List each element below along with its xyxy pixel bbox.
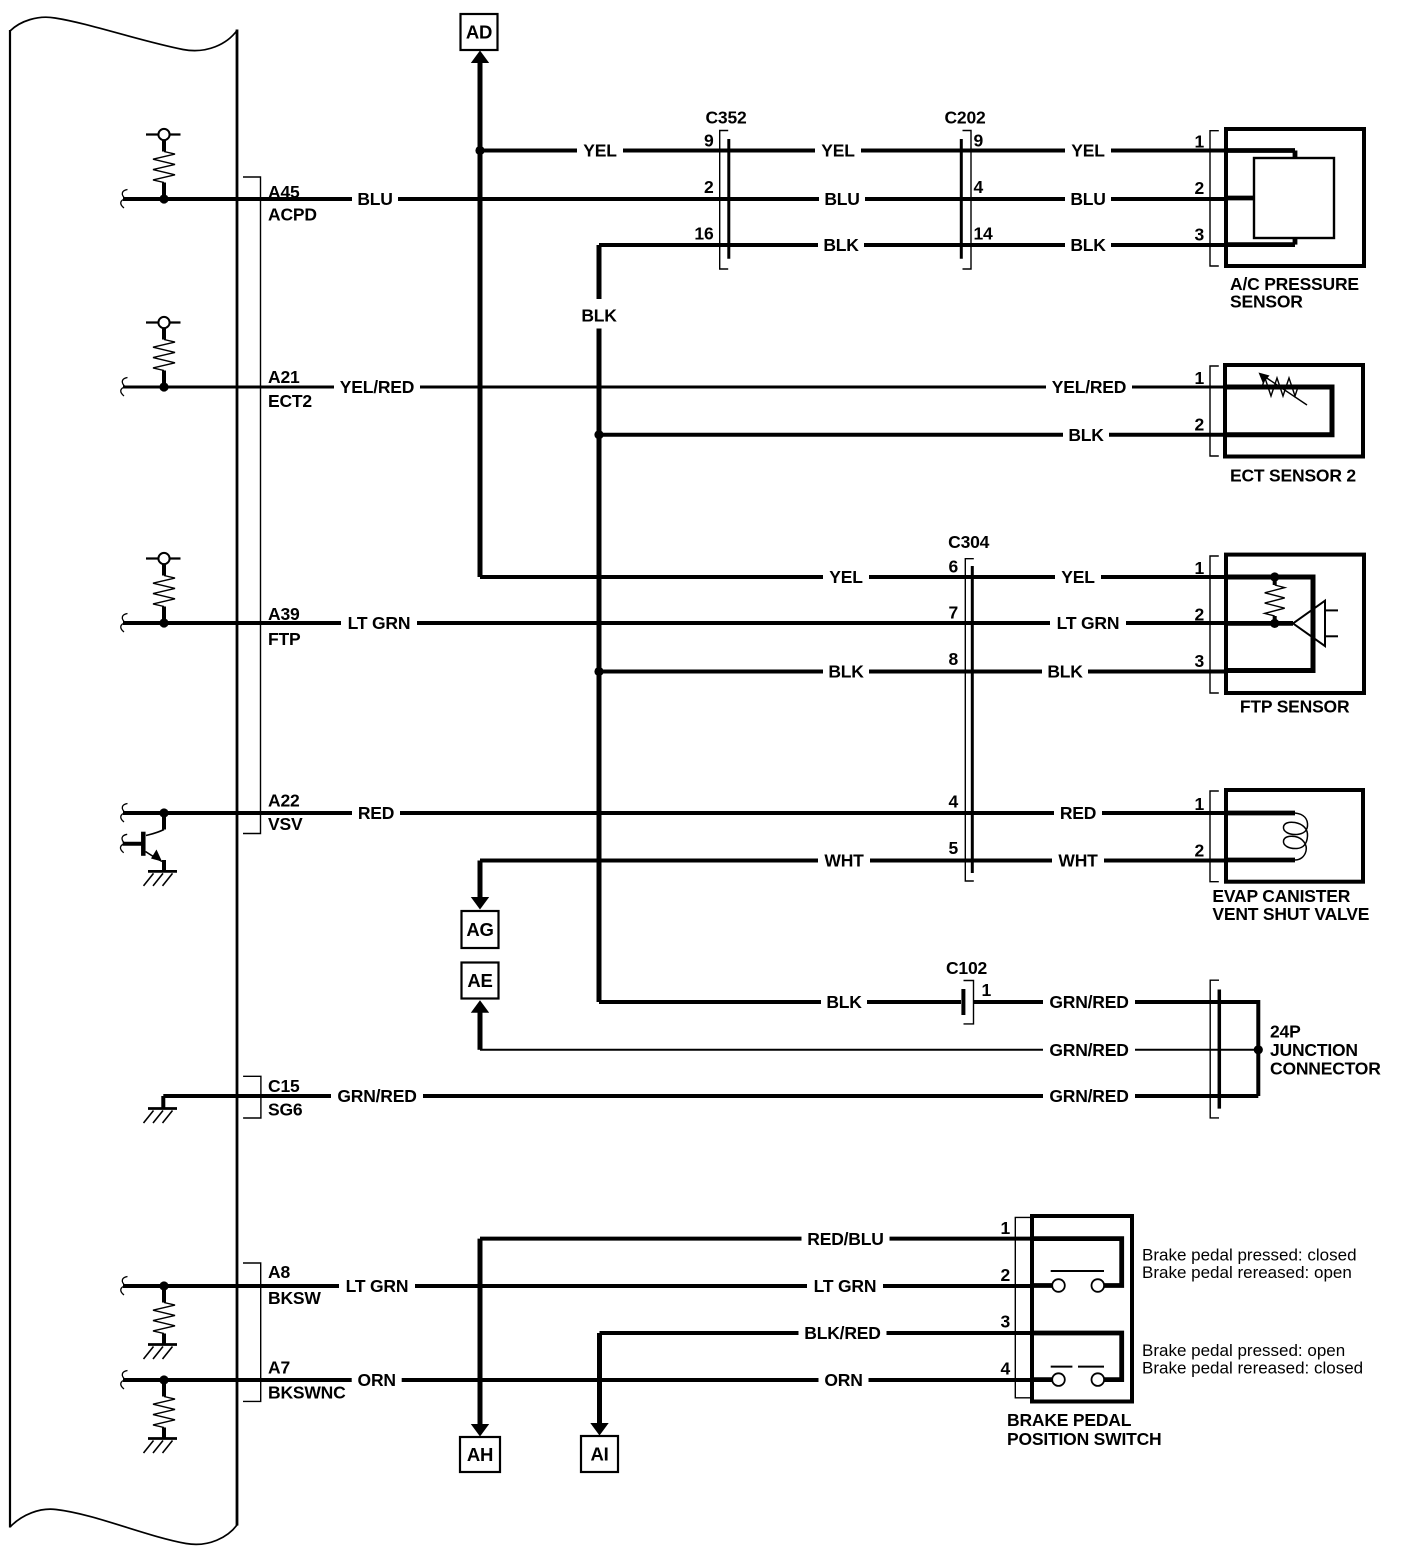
svg-text:24P: 24P — [1270, 1022, 1301, 1042]
wire YEL row y577 from AD trunk corner to FTP sensor — [480, 575, 1226, 579]
junction BLK trunk to ECT sensor BLK wire — [594, 430, 603, 439]
wire label YEL (left) — [577, 142, 623, 160]
FTP sensor box — [1226, 555, 1364, 693]
svg-text:GRN/RED: GRN/RED — [1049, 1040, 1128, 1060]
wire label RED (left) — [352, 804, 400, 822]
off-page reference AD — [461, 14, 498, 50]
ECT sensor 2 box — [1225, 365, 1363, 457]
A/C sensor internal element — [1226, 151, 1334, 245]
svg-text:BLK: BLK — [1047, 662, 1083, 682]
svg-text:1: 1 — [982, 980, 992, 1000]
svg-text:2: 2 — [1000, 1265, 1010, 1285]
off-page reference AH — [460, 1437, 500, 1472]
pull-up resistor at pin A45 — [146, 133, 181, 135]
svg-text:7: 7 — [948, 603, 958, 623]
wire BLK trunk from C352 pin 16 down to C102 row — [597, 245, 602, 299]
svg-text:BKSW: BKSW — [268, 1288, 321, 1308]
svg-text:4: 4 — [974, 177, 984, 197]
wire BLK row y671.5 from trunk junction to FTP sensor — [599, 670, 1226, 674]
svg-text:BLK: BLK — [826, 992, 862, 1012]
svg-text:ACPD: ACPD — [268, 205, 317, 225]
svg-text:CONNECTOR: CONNECTOR — [1270, 1059, 1381, 1079]
svg-text:A8: A8 — [268, 1262, 290, 1282]
svg-text:AH: AH — [467, 1444, 493, 1465]
svg-text:BLK: BLK — [581, 306, 617, 326]
svg-text:C304: C304 — [948, 532, 990, 552]
arrow to AH from RED/BLU corner — [478, 1239, 483, 1426]
svg-text:1: 1 — [1194, 794, 1204, 814]
hook at A22 wire end — [121, 804, 128, 823]
wire label BLK (ECT) — [1063, 426, 1109, 444]
wire BLK row y434.7 from trunk junction to ECT sensor 2 — [599, 433, 1226, 437]
junction at AD trunk and YEL wire — [475, 146, 484, 155]
svg-text:ECT2: ECT2 — [268, 391, 312, 411]
ECM connector bracket A8-A7 — [243, 1263, 261, 1401]
A/C pressure sensor connector bracket — [1210, 131, 1219, 266]
FTP sensor buffer amplifier triangle — [1293, 601, 1338, 646]
svg-text:5: 5 — [948, 838, 958, 858]
svg-text:SG6: SG6 — [268, 1100, 303, 1120]
FTP sensor internal wiring — [1226, 577, 1313, 671]
wire label LT GRN (A8 side) — [339, 1277, 415, 1295]
wire label ORN (switch side) — [819, 1371, 869, 1389]
wire label YEL/RED (right) — [1046, 378, 1132, 396]
connector C102 — [946, 958, 988, 1024]
wire GRN/RED row y1096 from SG6 ground to 24P junction — [163, 1094, 1258, 1098]
wire label ORN (A7 side) — [352, 1371, 402, 1389]
ECM/PCM torn-page outline — [10, 17, 237, 50]
svg-text:1: 1 — [1194, 558, 1204, 578]
svg-text:BLK: BLK — [1070, 235, 1106, 255]
arrow from AE down to GRN/RED wire — [471, 1000, 489, 1013]
pull-up resistor at pin A21 — [146, 321, 181, 323]
connector C352 — [705, 108, 747, 270]
transistor Q (VSV driver) — [123, 808, 169, 871]
svg-text:1: 1 — [1194, 132, 1204, 152]
brake pedal position switch box — [1032, 1216, 1132, 1402]
brake switch lower contact (BKSWNC) — [1032, 1333, 1122, 1386]
svg-text:4: 4 — [1000, 1359, 1010, 1379]
svg-text:GRN/RED: GRN/RED — [337, 1086, 416, 1106]
svg-text:POSITION SWITCH: POSITION SWITCH — [1007, 1429, 1162, 1449]
svg-text:BLK: BLK — [823, 235, 859, 255]
svg-text:1: 1 — [1000, 1218, 1010, 1238]
wire BLK/RED row y1333 from AI corner to brake switch — [600, 1331, 1033, 1335]
svg-text:YEL: YEL — [1071, 141, 1105, 161]
svg-text:GRN/RED: GRN/RED — [1049, 992, 1128, 1012]
EVAP valve connector bracket — [1210, 791, 1219, 882]
svg-text:SENSOR: SENSOR — [1230, 291, 1303, 311]
svg-text:JUNCTION: JUNCTION — [1270, 1040, 1358, 1060]
svg-text:4: 4 — [948, 792, 958, 812]
svg-text:A21: A21 — [268, 367, 300, 387]
ground at transistor emitter — [148, 870, 177, 873]
wire GRN/RED thin row y1049.8 from AE corner to 24P junction — [480, 1049, 1258, 1051]
wire label GRN/RED (left) — [331, 1087, 423, 1105]
svg-text:YEL: YEL — [829, 567, 863, 587]
svg-text:Brake pedal pressed: closed: Brake pedal pressed: closed — [1142, 1246, 1357, 1265]
svg-text:ECT SENSOR 2: ECT SENSOR 2 — [1230, 466, 1356, 486]
EVAP valve solenoid coil — [1226, 813, 1308, 860]
svg-text:RED/BLU: RED/BLU — [807, 1229, 883, 1249]
FTP sensor internal resistor — [1265, 572, 1285, 628]
svg-text:BLU: BLU — [1070, 189, 1105, 209]
A/C pressure sensor box — [1226, 129, 1364, 266]
wire label BLK (left of C304) — [823, 663, 869, 681]
wire YEL/RED row y387 from pin A21 to ECT sensor 2 — [123, 386, 1226, 389]
svg-text:3: 3 — [1000, 1312, 1010, 1332]
ground at SG6 wire end — [161, 1096, 165, 1109]
svg-text:BLK/RED: BLK/RED — [804, 1323, 880, 1343]
svg-text:9: 9 — [704, 131, 714, 151]
junction at 24P busbar — [1254, 1045, 1263, 1054]
hook at transistor base lead — [120, 834, 127, 853]
wire corner down right side of 24P busbar top — [1256, 1000, 1260, 1050]
wire label BLK (left of C102) — [821, 993, 867, 1011]
wire label YEL (right of C304) — [1055, 568, 1101, 586]
svg-text:BLK: BLK — [1068, 425, 1104, 445]
svg-text:9: 9 — [974, 131, 984, 151]
svg-text:A22: A22 — [268, 791, 300, 811]
arrow to AI from BLK/RED corner — [597, 1333, 602, 1426]
svg-text:A7: A7 — [268, 1358, 290, 1378]
svg-text:ORN: ORN — [358, 1370, 396, 1390]
svg-text:C15: C15 — [268, 1076, 300, 1096]
wire label RED (right) — [1054, 804, 1102, 822]
wire label YEL/RED (left) — [334, 378, 420, 396]
wire BLK/GRN-RED row y1002 from trunk corner through C102 to 24P junction — [599, 1000, 961, 1004]
svg-text:2: 2 — [704, 177, 714, 197]
wire label WHT (left of C304) — [818, 852, 870, 870]
svg-text:C352: C352 — [705, 108, 747, 128]
svg-text:2: 2 — [1194, 178, 1204, 198]
wire label BLK (right of C304) — [1042, 663, 1088, 681]
wire label BLU (left) — [352, 190, 398, 208]
svg-text:C102: C102 — [946, 958, 988, 978]
wire label WHT (right of C304) — [1052, 852, 1104, 870]
svg-text:VENT SHUT VALVE: VENT SHUT VALVE — [1212, 904, 1369, 924]
wire corner up right side of 24P busbar bottom — [1256, 1051, 1260, 1096]
svg-text:BRAKE PEDAL: BRAKE PEDAL — [1007, 1410, 1132, 1430]
svg-text:Brake pedal rereased: open: Brake pedal rereased: open — [1142, 1263, 1352, 1282]
svg-text:RED: RED — [358, 803, 394, 823]
wire label LT GRN (left) — [341, 614, 417, 632]
arrow to AD — [471, 51, 489, 64]
brake switch connector bracket — [1015, 1217, 1031, 1397]
svg-text:WHT: WHT — [1058, 851, 1098, 871]
wire label GRN/RED (right) — [1043, 1087, 1135, 1105]
svg-text:YEL/RED: YEL/RED — [340, 377, 414, 397]
brake switch upper contact (BKSW) — [1032, 1239, 1122, 1292]
hook at A21 wire end — [121, 378, 128, 397]
wire ORN row y1380 from pin A7 to brake switch — [123, 1378, 1032, 1382]
svg-text:AG: AG — [466, 919, 493, 940]
svg-text:AI: AI — [590, 1444, 608, 1465]
pull-up resistor at pin A39 — [146, 557, 181, 559]
svg-text:14: 14 — [974, 224, 994, 244]
wire label BLU (right) — [1065, 190, 1111, 208]
svg-text:C202: C202 — [944, 108, 986, 128]
svg-text:WHT: WHT — [824, 851, 864, 871]
svg-text:VSV: VSV — [268, 814, 303, 834]
connector 24P junction connector — [1210, 980, 1219, 1118]
FTP sensor connector bracket — [1210, 556, 1219, 693]
pull-down resistor at pin A7 — [159, 1375, 168, 1384]
hook at A7 wire end — [121, 1371, 128, 1390]
wire label GRN/RED (right of C102) — [1043, 993, 1135, 1011]
svg-text:6: 6 — [948, 557, 958, 577]
ECM connector bracket C15 — [243, 1076, 261, 1118]
svg-text:FTP SENSOR: FTP SENSOR — [1240, 697, 1350, 717]
off-page reference AI — [581, 1436, 618, 1472]
svg-text:2: 2 — [1194, 605, 1204, 625]
svg-text:2: 2 — [1194, 415, 1204, 435]
svg-text:BLU: BLU — [357, 189, 392, 209]
wire label YEL (left of C304) — [823, 568, 869, 586]
wire label BLK (middle) — [818, 236, 864, 254]
wire YEL row y150 from AD trunk to A/C sensor — [480, 149, 1226, 153]
off-page reference AE — [462, 963, 499, 999]
svg-text:Brake pedal pressed: open: Brake pedal pressed: open — [1142, 1341, 1345, 1360]
ECT sensor 2 connector bracket — [1210, 366, 1219, 456]
hook at A45 wire end — [121, 190, 128, 209]
svg-text:LT GRN: LT GRN — [1057, 613, 1120, 633]
junction BLK trunk to FTP sensor BLK wire — [594, 667, 603, 676]
wire label YEL (middle) — [815, 142, 861, 160]
EVAP canister vent shut valve box — [1226, 790, 1363, 882]
wire LT GRN row y1286 from pin A8 to brake switch — [123, 1284, 1032, 1288]
wire label BLU (middle) — [819, 190, 865, 208]
wire label LT GRN (switch side) — [807, 1277, 883, 1295]
pull-down resistor at pin A8 — [159, 1281, 168, 1290]
svg-text:AE: AE — [467, 970, 492, 991]
svg-text:LT GRN: LT GRN — [348, 613, 411, 633]
wire label RED/BLU — [802, 1230, 890, 1248]
svg-text:AD: AD — [466, 22, 492, 43]
svg-text:BLK: BLK — [828, 662, 864, 682]
svg-text:YEL: YEL — [821, 141, 855, 161]
ECM connector bracket A45-A22 — [243, 177, 261, 834]
svg-text:8: 8 — [948, 649, 958, 669]
wire BLU row y199 from pin A45 to A/C sensor — [123, 197, 1226, 201]
hook at A8 wire end — [121, 1277, 128, 1296]
wire WHT row y860.5 from AG corner to EVAP valve — [480, 859, 1226, 863]
svg-text:Brake pedal rereased: closed: Brake pedal rereased: closed — [1142, 1359, 1363, 1378]
svg-text:16: 16 — [694, 224, 714, 244]
svg-text:FTP: FTP — [268, 629, 301, 649]
svg-text:YEL: YEL — [583, 141, 617, 161]
svg-text:GRN/RED: GRN/RED — [1049, 1086, 1128, 1106]
wire RED row y813 from pin A22 to EVAP valve — [123, 811, 1226, 815]
arrow to AG and WHT corner wire — [478, 861, 483, 900]
svg-text:BLU: BLU — [824, 189, 859, 209]
connector C304 — [948, 532, 990, 881]
connector C202 — [944, 108, 986, 270]
svg-text:2: 2 — [1194, 841, 1204, 861]
wire LT GRN row y623 from pin A39 to FTP sensor — [123, 621, 1226, 625]
svg-text:3: 3 — [1194, 651, 1204, 671]
svg-text:YEL: YEL — [1061, 567, 1095, 587]
ECT sensor 2 thermistor element — [1225, 373, 1332, 435]
wire label LT GRN (right) — [1050, 614, 1126, 632]
svg-text:3: 3 — [1194, 225, 1204, 245]
wire BLK row y245 from trunk corner to A/C sensor — [599, 243, 1226, 247]
svg-text:YEL/RED: YEL/RED — [1052, 377, 1126, 397]
wire label BLK (right) — [1065, 236, 1111, 254]
svg-text:LT GRN: LT GRN — [346, 1276, 409, 1296]
svg-text:LT GRN: LT GRN — [814, 1276, 877, 1296]
svg-text:RED: RED — [1060, 803, 1096, 823]
wire label GRN/RED (thin row) — [1043, 1041, 1135, 1059]
wire RED/BLU row y1238.6 from AH corner to brake switch — [480, 1237, 1032, 1241]
hook at A39 wire end — [121, 614, 128, 633]
wire label BLK/RED — [799, 1324, 887, 1342]
svg-text:ORN: ORN — [824, 1370, 862, 1390]
off-page reference AG — [462, 911, 499, 948]
svg-text:BKSWNC: BKSWNC — [268, 1383, 346, 1403]
svg-text:1: 1 — [1194, 368, 1204, 388]
wire label YEL (right) — [1065, 142, 1111, 160]
